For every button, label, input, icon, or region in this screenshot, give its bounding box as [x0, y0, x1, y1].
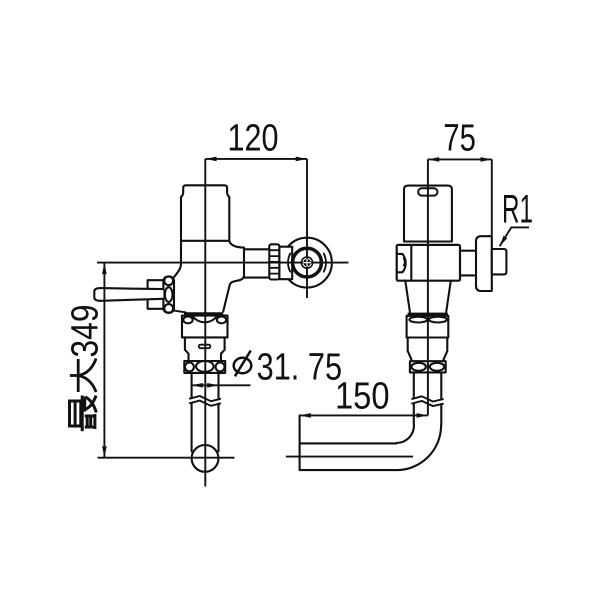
pipe break squiggle (side view) [412, 396, 443, 406]
arrowheads 120 [205, 157, 216, 162]
arrowheads 75 [428, 157, 439, 162]
vacuum breaker section (front view) [185, 337, 225, 361]
vertical centerline left figure [204, 159, 206, 487]
handle lever grip [94, 288, 163, 301]
dimension line 349 [103, 263, 105, 458]
flange nut right flat arc [324, 254, 326, 272]
elbow bend [396, 425, 414, 443]
upper union nut (side view) [407, 316, 449, 338]
flange union nut bold circle [293, 248, 322, 277]
arrowheads 349 [102, 263, 107, 274]
dimension line 120 [205, 158, 307, 160]
flange center ring [301, 257, 312, 268]
down pipe (side view) [414, 372, 442, 425]
flange center dot [303, 259, 310, 266]
arrowheads 150 [300, 413, 311, 418]
kanji DAI (big) [70, 359, 96, 393]
horizontal centerline valve axis [97, 262, 349, 264]
body-to-nut joint line [174, 311, 186, 313]
body internal line (side view) [410, 245, 412, 281]
lower union nut (front view) [184, 361, 225, 373]
flange bracket piece [279, 247, 292, 280]
phi symbol [234, 351, 252, 377]
kanji SAI (most) [70, 396, 97, 432]
dimension line phi 31.75 [192, 384, 251, 386]
body taper (side view) [405, 281, 451, 312]
horizontal outlet pipe (side view) [300, 415, 397, 470]
horizontal centerline outlet (front view) [98, 457, 235, 459]
svg-text:349: 349 [65, 305, 107, 358]
handle boss (side view) [398, 254, 406, 272]
adjuster slot [199, 345, 211, 349]
vertical centerline right figure [427, 159, 429, 415]
flange nut left flat arc [288, 254, 290, 272]
dark packing band (side view) [408, 313, 448, 316]
outlet pipe end circle (front view) [192, 445, 219, 472]
dimension line 150 [300, 414, 428, 416]
handle socket (front view) [163, 277, 174, 313]
valve body (front view) [174, 241, 181, 277]
svg-text:R1: R1 [502, 187, 533, 231]
arrowheads phi 31.75 [192, 383, 203, 388]
wall escutcheon bell (side view) [476, 236, 492, 291]
valve cap (front view) [181, 185, 229, 241]
handle base [148, 280, 164, 309]
dimension line 75 [428, 158, 492, 160]
arrowhead R1 leader [500, 236, 508, 247]
lower union nut (side view) [410, 361, 446, 372]
svg-text:120: 120 [228, 118, 279, 160]
valve body box (side view) [397, 245, 460, 281]
svg-text:31. 75: 31. 75 [257, 347, 343, 389]
horizontal centerline outlet (side view) [286, 456, 413, 458]
vacuum breaker section (side view) [408, 338, 448, 362]
down pipe (front view) [192, 373, 219, 452]
pipe break squiggle (front view) [190, 396, 220, 406]
knurled coupling nut on spud pipe [269, 244, 279, 279]
vertical centerline flange circle [306, 159, 308, 298]
upper union nut (front view) [182, 316, 228, 338]
wall flange outer circle (front view) [282, 238, 332, 288]
extension line wall face [491, 159, 493, 236]
svg-text:150: 150 [335, 375, 390, 417]
valve cap (side view) [404, 186, 452, 242]
dimension text max 349 (rotated) [65, 305, 107, 432]
leader line R1 [500, 227, 529, 246]
wall spud R1 (side view) [492, 249, 507, 274]
pipe to wall (side view) [460, 251, 476, 276]
dark packing band (front view) [184, 312, 223, 315]
spud pipe to wall flange (front view) [244, 249, 269, 277]
svg-text:75: 75 [443, 117, 476, 159]
cap slot (side view) [418, 188, 437, 195]
